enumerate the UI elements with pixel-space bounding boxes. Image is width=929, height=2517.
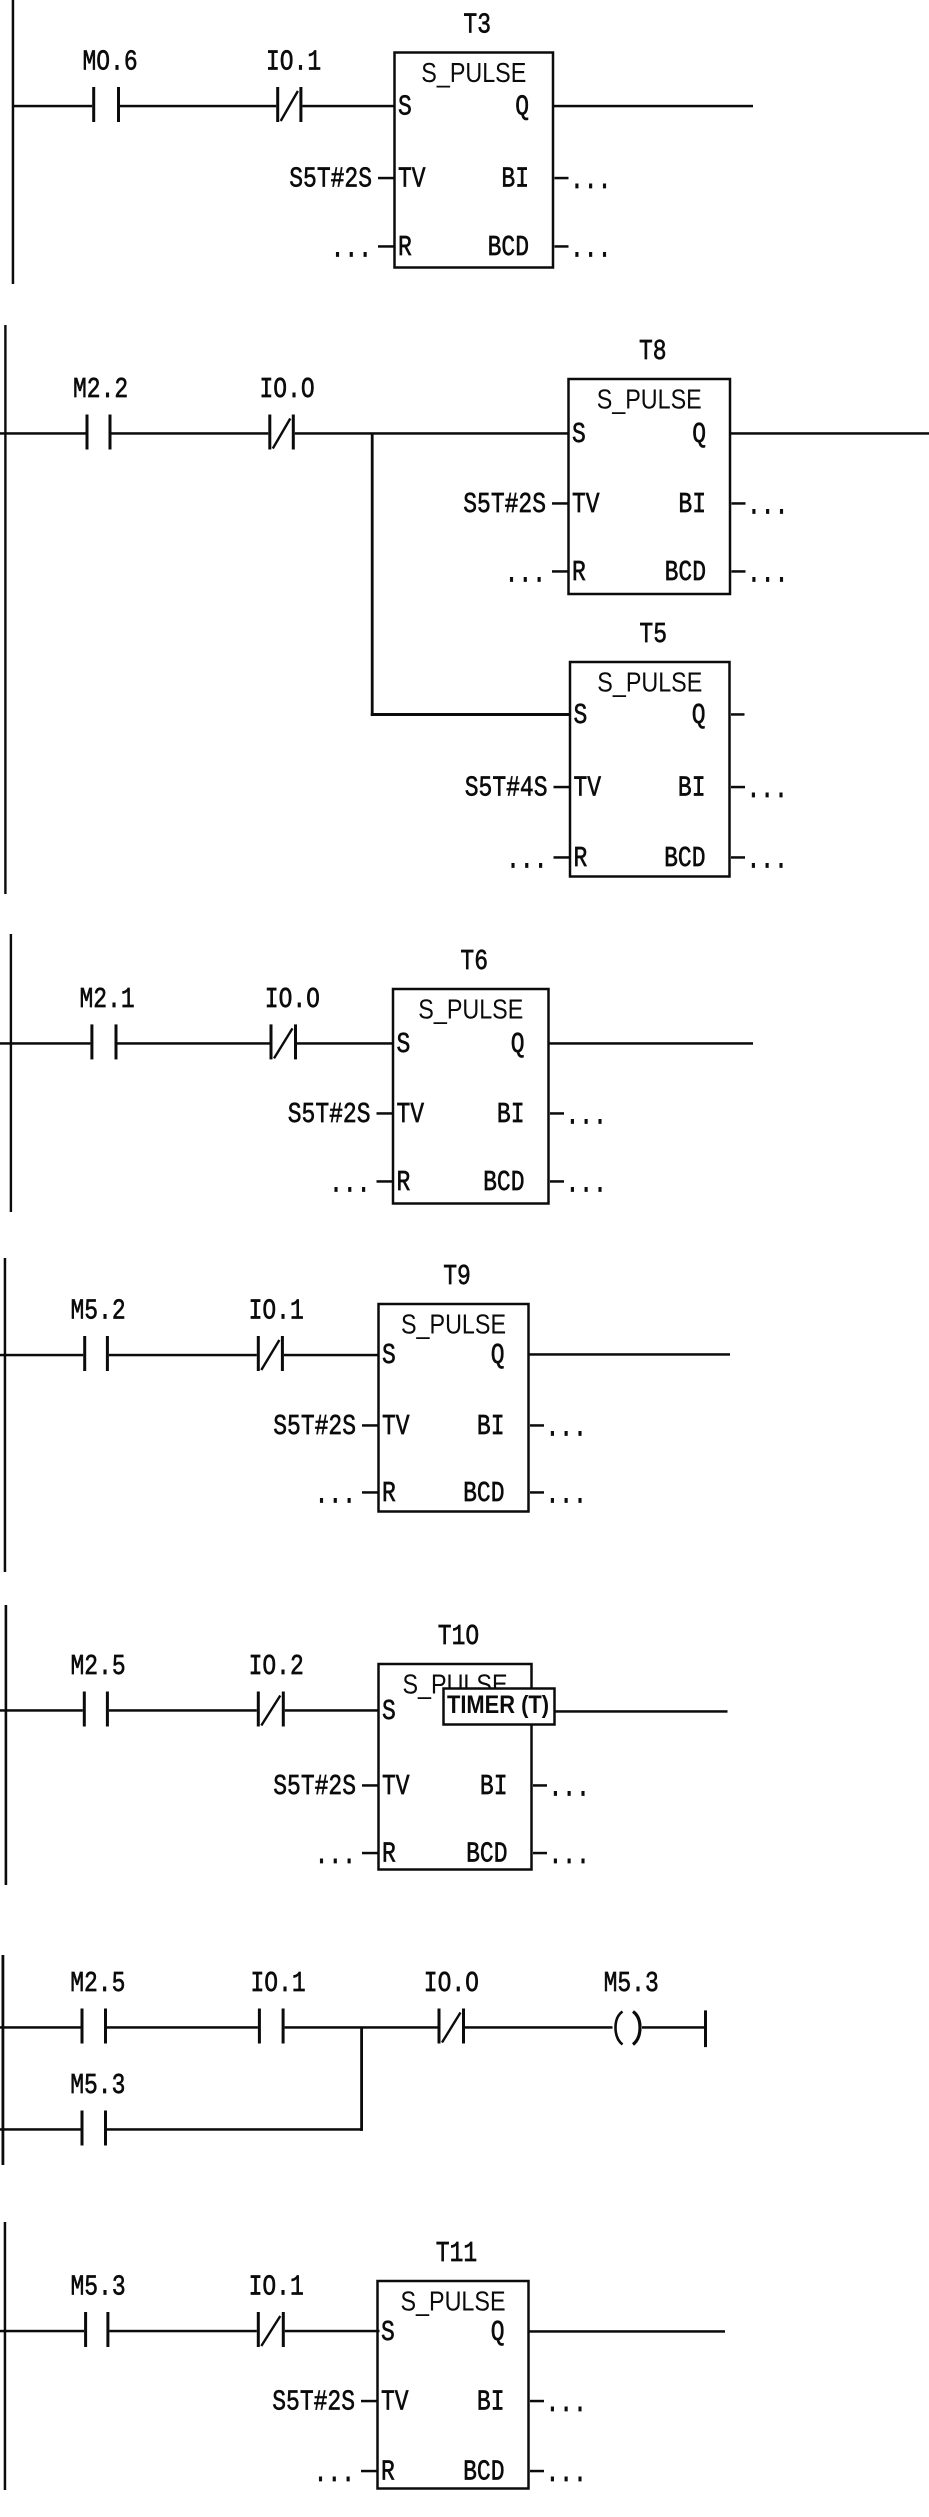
svg-text:IO.O: IO.O — [265, 983, 320, 1016]
svg-text:...: ... — [546, 2387, 587, 2420]
svg-text:BI: BI — [678, 488, 706, 521]
svg-text:BCD: BCD — [463, 1477, 504, 1510]
svg-text:...: ... — [747, 843, 788, 876]
svg-text:IO.2: IO.2 — [249, 1650, 304, 1683]
svg-text:R: R — [381, 2455, 395, 2488]
svg-text:...: ... — [747, 557, 788, 590]
svg-text:R: R — [382, 1837, 396, 1870]
svg-text:BI: BI — [477, 1410, 505, 1443]
svg-text:...: ... — [566, 1099, 607, 1132]
svg-text:...: ... — [314, 2457, 355, 2490]
svg-text:BCD: BCD — [466, 1837, 507, 1870]
svg-text:Q: Q — [515, 90, 529, 123]
svg-text:...: ... — [546, 1411, 587, 1444]
svg-text:S_PULSE: S_PULSE — [597, 667, 702, 698]
svg-text:M2.5: M2.5 — [70, 1967, 125, 2000]
svg-text:S_PULSE: S_PULSE — [421, 57, 526, 88]
svg-text:IO.1: IO.1 — [249, 2270, 304, 2303]
svg-text:S5T#2S: S5T#2S — [289, 162, 372, 195]
svg-text:...: ... — [315, 1478, 356, 1511]
svg-text:...: ... — [570, 164, 611, 197]
svg-text:TV: TV — [397, 1098, 425, 1131]
svg-text:...: ... — [747, 773, 788, 806]
svg-text:IO.1: IO.1 — [249, 1294, 304, 1327]
svg-text:M2.5: M2.5 — [71, 1650, 126, 1683]
svg-text:S5T#2S: S5T#2S — [273, 1410, 356, 1443]
svg-text:T9: T9 — [443, 1260, 471, 1293]
svg-text:Q: Q — [491, 1339, 505, 1372]
svg-text:TIMER (T): TIMER (T) — [447, 1691, 549, 1719]
svg-text:S: S — [397, 1028, 411, 1061]
svg-text:...: ... — [747, 489, 788, 522]
svg-text:TV: TV — [572, 488, 600, 521]
svg-text:S_PULSE: S_PULSE — [418, 994, 523, 1025]
svg-text:R: R — [397, 1166, 411, 1199]
svg-text:BCD: BCD — [664, 842, 705, 875]
svg-text:T1O: T1O — [438, 1620, 479, 1653]
svg-text:IO.1: IO.1 — [251, 1967, 306, 2000]
svg-text:TV: TV — [382, 1410, 410, 1443]
svg-text:M5.3: M5.3 — [70, 2069, 125, 2102]
svg-text:R: R — [572, 556, 586, 589]
svg-text:S5T#2S: S5T#2S — [288, 1098, 371, 1131]
svg-text:R: R — [382, 1477, 396, 1510]
svg-text:M2.1: M2.1 — [80, 983, 135, 1016]
svg-text:S5T#2S: S5T#2S — [463, 488, 546, 521]
svg-text:BI: BI — [477, 2385, 505, 2418]
svg-text:IO.O: IO.O — [424, 1967, 479, 2000]
svg-text:TV: TV — [574, 771, 602, 804]
svg-text:...: ... — [315, 1839, 356, 1872]
svg-text:S: S — [381, 2316, 395, 2349]
svg-text:S: S — [574, 699, 588, 732]
svg-text:IO.O: IO.O — [260, 373, 315, 406]
svg-text:S5T#4S: S5T#4S — [465, 771, 548, 804]
svg-text:M5.2: M5.2 — [71, 1294, 126, 1327]
svg-text:S5T#2S: S5T#2S — [273, 1770, 356, 1803]
svg-text:R: R — [398, 231, 412, 264]
svg-text:M5.3: M5.3 — [71, 2270, 126, 2303]
svg-text:BCD: BCD — [665, 556, 706, 589]
svg-text:BI: BI — [480, 1770, 508, 1803]
svg-text:TV: TV — [381, 2385, 409, 2418]
svg-text:M5.3: M5.3 — [604, 1967, 659, 2000]
svg-text:Q: Q — [511, 1028, 525, 1061]
svg-text:IO.1: IO.1 — [266, 45, 321, 78]
svg-text:BI: BI — [678, 771, 706, 804]
svg-text:T8: T8 — [639, 335, 667, 368]
svg-text:...: ... — [566, 1167, 607, 1200]
svg-text:...: ... — [549, 1771, 590, 1804]
svg-text:...: ... — [506, 843, 547, 876]
svg-text:TV: TV — [382, 1770, 410, 1803]
svg-text:Q: Q — [491, 2316, 505, 2349]
svg-text:BI: BI — [501, 162, 529, 195]
svg-text:S5T#2S: S5T#2S — [272, 2385, 355, 2418]
svg-text:...: ... — [505, 557, 546, 590]
svg-text:M2.2: M2.2 — [73, 373, 128, 406]
svg-text:T5: T5 — [639, 618, 667, 651]
svg-text:...: ... — [549, 1839, 590, 1872]
svg-text:...: ... — [546, 1478, 587, 1511]
svg-text:S: S — [398, 90, 412, 123]
svg-text:S_PULSE: S_PULSE — [401, 2286, 506, 2317]
svg-text:S_PULSE: S_PULSE — [597, 384, 702, 415]
svg-text:...: ... — [546, 2457, 587, 2490]
svg-text:BCD: BCD — [483, 1166, 524, 1199]
svg-text:MO.6: MO.6 — [83, 45, 138, 78]
svg-text:T6: T6 — [460, 945, 488, 978]
svg-text:Q: Q — [692, 699, 706, 732]
svg-text:TV: TV — [398, 162, 426, 195]
svg-text:T11: T11 — [436, 2237, 477, 2270]
svg-text:S: S — [572, 418, 586, 451]
svg-text:T3: T3 — [463, 8, 491, 41]
svg-text:BI: BI — [497, 1098, 525, 1131]
svg-text:BCD: BCD — [463, 2455, 504, 2488]
svg-text:...: ... — [570, 232, 611, 265]
svg-text:R: R — [574, 842, 588, 875]
svg-text:S_PULSE: S_PULSE — [401, 1309, 506, 1340]
svg-text:S: S — [382, 1695, 396, 1728]
svg-text:Q: Q — [692, 418, 706, 451]
svg-text:...: ... — [331, 232, 372, 265]
svg-text:S: S — [382, 1339, 396, 1372]
svg-text:BCD: BCD — [488, 231, 529, 264]
svg-text:...: ... — [329, 1167, 370, 1200]
